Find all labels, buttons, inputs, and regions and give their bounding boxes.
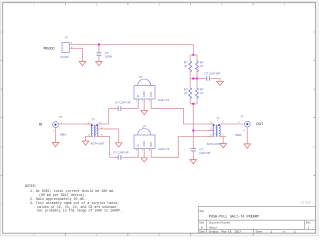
ground arrow under T2 pin3 [220,144,227,148]
svg-text:IN: IN [39,123,43,127]
svg-text:J?: J? [59,115,63,119]
notes text [25,184,122,213]
title block captions [199,209,311,233]
svg-text:<Doc>: <Doc> [209,225,218,229]
wire C4 to U1 IN [121,99,138,108]
svg-text:A: A [1,30,3,34]
wire junction down to C1 [98,45,100,53]
wire C3 to ground [192,151,194,160]
U1 dome [138,79,151,86]
svg-text:GALI-74: GALI-74 [158,147,170,151]
amplifier U2 GALI-74 [134,124,170,152]
node junction bottom of resistor bank [192,103,194,105]
wire U2 OUT to T2 pin 3 [151,137,210,158]
svg-text:B: B [313,88,315,92]
svg-text:27: 27 [200,91,204,95]
ground arrow under J3 [244,144,251,148]
svg-text:GND: GND [142,91,146,97]
wire U2 GND to ground [143,149,145,158]
svg-text:13.5CM: 13.5CM [301,200,311,204]
wire J3 pin2 to ground [246,127,248,144]
amplifier U1 GALI-74 [134,75,170,103]
wire C6 to U2 IN [121,149,138,158]
svg-text:CON2: CON2 [60,55,69,59]
T2 secondary winding [219,125,220,136]
wire mid bar to C2 [197,78,207,80]
resistor R? lower-left 27 [189,88,192,99]
power port 9VDC [43,46,55,50]
T1 primary winding [91,125,92,136]
wire T2 pin1 to J3 [226,123,244,125]
svg-text:IN: IN [136,144,140,147]
svg-text:GND: GND [142,141,146,147]
wire bias junction to T2 pin 2 [193,130,213,132]
ground arrow under J2 [52,142,59,146]
svg-text:1: 1 [294,231,296,234]
wire upper-right resistor leads [196,55,198,61]
T1 pin stubs [85,123,93,125]
svg-text:Sunday, May 14, 2017: Sunday, May 14, 2017 [209,230,242,234]
svg-text:SMA: SMA [60,133,67,137]
svg-text:J?: J? [240,115,244,119]
connector J3 SMA output [244,121,250,127]
resistor R? lower-right 27 [196,88,199,99]
wire U1 GND to ground [143,99,145,110]
ground arrow under U2 [141,158,148,162]
svg-text:but probably in the range of 1: but probably in the range of 100P to 100… [37,209,122,213]
svg-text:A: A [201,226,203,229]
zone ticks top [65,3,253,6]
svg-text:J?: J? [65,36,69,40]
wire C2 to ground [210,79,220,82]
wire bias feed down [192,45,194,56]
svg-text:SMA: SMA [235,133,242,137]
ground arrow under C3 [190,160,197,164]
svg-text:27: 27 [184,91,188,95]
svg-text:U?: U? [139,75,143,79]
wire J2 pin1 to T1 pin1 [58,123,90,125]
wire T2 pin3 to ground [222,137,224,144]
zone ticks left [1,60,3,175]
svg-text:C? CAP NP: C? CAP NP [115,101,131,105]
svg-text:OUT: OUT [149,91,153,97]
svg-text:Sheet: Sheet [256,229,263,233]
capacitor C2 CAP NP bypass [207,76,210,81]
svg-text:B: B [1,88,3,92]
U1 body [134,86,155,100]
zone letters left [1,30,4,207]
svg-text:Rev: Rev [306,221,311,225]
wire J2 pin2 to ground [55,128,57,143]
svg-text:T?: T? [91,118,95,122]
resistor R? upper-left 27 [189,61,192,72]
wire T1 pin2 center tap to ground [104,129,119,143]
svg-text:1: 1 [308,226,310,229]
T2 polarity dots [213,124,215,126]
T1 secondary winding [97,125,98,136]
wire lower-right resistor leads [196,79,198,88]
capacitor C1 100N [96,53,101,55]
capacitor C3 CAP NP [191,149,196,151]
svg-text:ADT4-1WT: ADT4-1WT [207,142,221,146]
svg-text:OUT: OUT [149,141,153,147]
title block frame [198,206,316,233]
wire upper path to C4 [109,107,118,109]
capacitor C4 CAP NP coupling [118,106,121,111]
T1 core [93,125,95,137]
wire bottom bar of resistor bank [190,103,197,105]
U2 dome [138,129,151,136]
svg-text:27: 27 [200,64,204,68]
svg-text:IN: IN [136,95,140,98]
connector J2 SMA input [53,122,59,128]
ground arrow under J1 pin2 [79,62,86,66]
svg-text:A: A [313,30,315,34]
svg-text:Document Number: Document Number [209,221,231,225]
svg-text:OUT: OUT [256,122,263,126]
svg-text:NOTES:: NOTES: [25,184,37,188]
T2 primary winding [213,125,214,136]
ground arrow right of C2 [217,81,224,85]
svg-text:GALI-74: GALI-74 [158,98,170,102]
svg-text:27: 27 [184,64,188,68]
node junction mid bar left [192,78,194,80]
node junction at C1 tap [98,44,100,46]
node junction bias to T2 center tap [192,130,194,132]
svg-text:CAP NP: CAP NP [199,151,210,155]
wire T1 pin5 down to lower path [104,137,110,158]
wire top bar of upper resistor pair [190,54,197,56]
svg-text:9VDC: 9VDC [46,46,56,50]
wire J1 pin2 to ground [69,48,82,61]
capacitor C6 CAP NP coupling [118,155,121,160]
svg-text:100N: 100N [105,55,112,59]
wire lower path to C6 [110,156,118,158]
svg-text:Date:: Date: [199,229,205,233]
ground arrow under C1 [96,62,103,66]
svg-text:PUSH-PULL GALI-74 PREAMP: PUSH-PULL GALI-74 PREAMP [209,216,259,220]
wire bias down to C3 [192,104,194,149]
wire T1 pin4 up to upper path [104,108,109,124]
wire upper-left resistor leads [189,55,191,61]
ground arrow under T1 pin3 [82,141,89,145]
T1 polarity dots [91,125,93,127]
svg-text:Title: Title [199,209,204,213]
svg-text:U?: U? [142,124,146,128]
svg-text:ADT4-1WT: ADT4-1WT [91,142,105,146]
zone ticks right [313,60,316,175]
connector J1 CON2 [62,42,69,52]
svg-text:T?: T? [216,117,220,121]
wire mid bar of resistor bank [190,78,197,80]
transformer T2 ADT4-1WT [207,117,226,147]
wire T1 pin3 to ground [85,137,87,141]
T2 core [215,125,217,137]
node junction top of resistor bank [192,54,194,56]
svg-text:C? CAP NP: C? CAP NP [204,72,220,76]
zone ticks bottom [65,233,253,236]
svg-text:C? CAP NP: C? CAP NP [113,151,129,155]
resistor R? upper-right 27 [196,61,199,72]
node junction mid bar right [196,78,198,80]
wire lower-left resistor leads [189,79,191,88]
zone letters right [313,30,316,149]
svg-text:Size: Size [199,221,205,225]
wire U1 OUT to T2 pin 1 [151,99,210,124]
U2 body [134,135,155,149]
wire C1 to ground [98,55,100,61]
wire 9V rail J1 pin1 to bias network [69,44,193,46]
zone numerals bottom [33,233,160,237]
zone numerals top [33,3,285,7]
ground arrow under U1 [141,110,148,114]
svg-text:1: 1 [271,231,273,234]
ground arrow under T1 center tap [115,143,122,147]
transformer T1 ADT4-1WT [85,118,105,146]
svg-text:of: of [283,230,285,234]
T2 pin stubs [207,123,214,125]
